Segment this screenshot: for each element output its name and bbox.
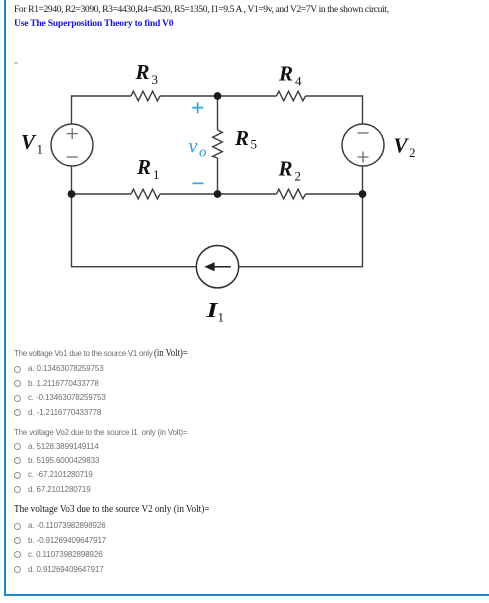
wire right rail lower: [239, 166, 363, 267]
resistor R1: [131, 189, 160, 199]
svg-text:2: 2: [295, 169, 302, 184]
q1 option d: [14, 409, 21, 416]
svg-text:o: o: [199, 144, 207, 160]
header line 2: [14, 18, 173, 29]
q3 option c: [14, 551, 21, 558]
wire middle rail right segment: [306, 193, 363, 195]
current source I1: [196, 246, 238, 288]
wire middle rail left segment: [72, 193, 132, 195]
node top middle: [214, 92, 222, 100]
svg-text:R: R: [278, 62, 293, 86]
q1 option b: [14, 380, 21, 387]
label R1: [136, 155, 160, 182]
svg-text:3: 3: [152, 72, 159, 87]
q2 option b: [14, 457, 21, 464]
resistor R5: [213, 130, 223, 158]
wire left rail upper: [71, 95, 73, 124]
svg-text:V: V: [394, 134, 410, 158]
svg-text:R: R: [135, 60, 150, 84]
label V2: [394, 134, 416, 161]
wire middle rail center segment: [160, 193, 277, 195]
svg-text:2: 2: [409, 145, 416, 160]
resistor R4: [277, 91, 306, 101]
svg-text:5: 5: [251, 137, 258, 152]
label R3: [135, 60, 159, 87]
wire top rail left segment: [72, 95, 132, 97]
svg-text:1: 1: [37, 142, 44, 157]
svg-text:1: 1: [153, 167, 160, 182]
left page border: [4, 0, 6, 596]
svg-text:4: 4: [295, 74, 302, 89]
resistor R3: [131, 91, 160, 101]
wire right rail upper: [362, 95, 364, 124]
question 2 heading: [14, 428, 187, 437]
q3 option a: [14, 523, 21, 530]
wire top rail right segment: [306, 95, 363, 97]
svg-text:R: R: [136, 155, 151, 179]
svg-text:R: R: [278, 157, 293, 181]
wire middle branch lower: [217, 158, 219, 194]
svg-text:R: R: [234, 126, 249, 150]
label V1: [21, 130, 43, 157]
q2 option a: [14, 443, 21, 450]
q3 option d: [14, 566, 21, 573]
svg-text:V: V: [21, 130, 37, 154]
node middle center: [214, 190, 222, 198]
node middle right: [359, 190, 367, 198]
label R4: [278, 62, 302, 89]
stray small artifact dash: [14, 62, 18, 64]
q1 option a: [14, 366, 21, 373]
wire top rail middle segment: [160, 95, 277, 97]
question 3 heading: [14, 504, 226, 515]
node middle left: [68, 190, 76, 198]
label I1: [205, 299, 224, 324]
label vo: [189, 135, 208, 160]
header line 1: [14, 4, 389, 15]
plus polarity mark vo: [192, 102, 203, 113]
q2 option c: [14, 472, 21, 479]
wire left rail lower: [72, 166, 197, 267]
minus polarity mark vo: [192, 182, 203, 184]
bottom page border: [4, 594, 489, 596]
wire middle branch upper: [217, 96, 219, 130]
voltage source V2: [342, 124, 384, 166]
q2 option d: [14, 486, 21, 493]
label R5: [234, 126, 257, 152]
label R2: [278, 157, 302, 184]
voltage source V1: [51, 124, 93, 166]
svg-text:v: v: [189, 135, 198, 157]
q1 option c: [14, 395, 21, 402]
svg-text:1: 1: [218, 310, 225, 325]
resistor R2: [277, 189, 306, 199]
q3 option b: [14, 537, 21, 544]
question 1 heading: [14, 348, 193, 359]
